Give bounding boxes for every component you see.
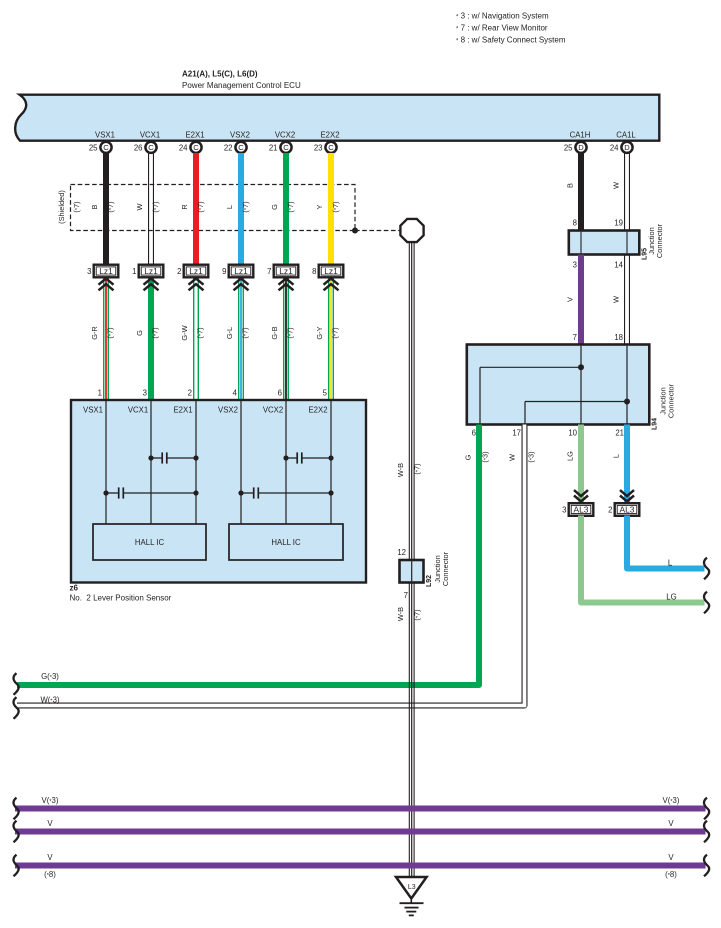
svg-text:1: 1 [132, 267, 136, 276]
svg-text:AL3: AL3 [574, 505, 589, 515]
svg-text:VSX1: VSX1 [95, 131, 115, 140]
svg-text:3: 3 [562, 505, 566, 514]
junction connector L95 [569, 223, 664, 260]
L95 pin 8 [573, 219, 577, 228]
svg-text:AL3: AL3 [620, 505, 635, 515]
svg-text:12: 12 [397, 548, 406, 557]
svg-text:C: C [103, 143, 109, 152]
wire LG from L94 pin 10 to AL3 [566, 425, 582, 505]
svg-text:7: 7 [573, 333, 577, 342]
svg-text:G: G [270, 204, 279, 210]
svg-text:6: 6 [278, 389, 282, 398]
svg-text:Connector: Connector [441, 551, 450, 586]
svg-text:21: 21 [615, 429, 624, 438]
svg-text:26: 26 [134, 144, 143, 153]
svg-text:CA1H: CA1H [570, 131, 591, 140]
L94 pin 10 [568, 429, 577, 438]
svg-text:Lz1: Lz1 [144, 266, 158, 276]
L95 pin 3 [573, 261, 577, 270]
svg-text:(*7): (*7) [331, 201, 340, 212]
svg-text:(*3): (*3) [481, 451, 490, 462]
svg-text:HALL IC: HALL IC [135, 538, 165, 547]
sensor z6 pin 2 [188, 389, 192, 398]
svg-text:G-R: G-R [90, 326, 99, 340]
svg-text:E2X1: E2X1 [185, 131, 204, 140]
svg-text:G: G [464, 454, 473, 460]
wire V (*8) horizontal [15, 853, 706, 879]
wire L from L94 pin 21 to AL3 [611, 425, 627, 505]
wire L from ECU to Lz1 [225, 153, 250, 266]
svg-text:14: 14 [614, 261, 623, 270]
wire W from ECU to Lz1 [135, 153, 160, 266]
svg-text:24: 24 [179, 144, 188, 153]
svg-text:V: V [47, 853, 53, 862]
svg-text:W: W [612, 296, 621, 303]
svg-text:A21(A), L5(C), L6(D): A21(A), L5(C), L6(D) [182, 70, 258, 79]
svg-text:VCX1: VCX1 [140, 131, 160, 140]
wire G-Y from Lz1 to sensor [315, 278, 340, 400]
svg-text:C: C [148, 143, 154, 152]
capacitor C1 (VCX1-E2X1) [148, 452, 198, 463]
L94 pin 17 [512, 429, 521, 438]
svg-text:C: C [193, 143, 199, 152]
L94 pin 18 [614, 333, 623, 342]
svg-text:W: W [508, 454, 517, 461]
svg-text:(*7): (*7) [106, 327, 115, 338]
svg-text:(*7): (*7) [72, 201, 81, 212]
svg-text:VCX2: VCX2 [263, 406, 283, 415]
break squiggle V left [13, 821, 18, 843]
svg-text:VCX1: VCX1 [128, 406, 148, 415]
svg-text:V: V [566, 297, 575, 302]
svg-text:W-B: W-B [396, 607, 405, 621]
svg-text:D: D [578, 143, 584, 152]
sensor z6 No.2 Lever Position Sensor box [70, 400, 367, 603]
wire G (*3) from L94 pin 6 to left edge [17, 425, 490, 686]
wire G-L from Lz1 to sensor [225, 278, 250, 400]
connector Lz1 pin 7 [267, 265, 298, 291]
svg-text:(*7): (*7) [196, 201, 205, 212]
svg-text:L: L [668, 559, 673, 568]
svg-text:L: L [611, 454, 620, 458]
svg-text:(*7): (*7) [413, 463, 422, 474]
svg-text:Lz1: Lz1 [99, 266, 113, 276]
svg-text:9: 9 [222, 267, 226, 276]
svg-text:* 3 : w/ Navigation System: * 3 : w/ Navigation System [456, 12, 549, 21]
svg-text:19: 19 [614, 219, 623, 228]
svg-text:Y: Y [315, 204, 324, 209]
break squiggle G left [13, 673, 18, 695]
svg-text:G-W: G-W [180, 325, 189, 340]
ECU pin 26 VCX1 [134, 131, 160, 153]
svg-text:(*7): (*7) [241, 327, 250, 338]
svg-text:Connector: Connector [655, 223, 664, 258]
svg-text:E2X2: E2X2 [320, 131, 339, 140]
svg-text:Connector: Connector [667, 383, 676, 418]
connector Lz1 pin 9 [222, 265, 253, 291]
sensor z6 pin 1 [98, 389, 102, 398]
svg-text:V: V [668, 819, 674, 828]
svg-text:24: 24 [610, 144, 619, 153]
ECU pin 21 VCX2 [269, 131, 295, 153]
svg-text:V: V [47, 819, 53, 828]
svg-text:7: 7 [267, 267, 271, 276]
ECU pin 24 CA1L [610, 131, 637, 153]
svg-text:3: 3 [87, 267, 91, 276]
svg-text:10: 10 [568, 429, 577, 438]
break squiggle LG right [704, 592, 709, 614]
wire B from ECU to Lz1 [90, 153, 115, 266]
ECU A21 Power Management Control ECU [15, 70, 659, 141]
L92 pin 7 [404, 591, 408, 600]
wire G-B from Lz1 to sensor [270, 278, 295, 400]
svg-text:Lz1: Lz1 [234, 266, 248, 276]
wire W (*3) from L94 pin 17 to left edge [17, 425, 536, 706]
svg-text:(*7): (*7) [241, 201, 250, 212]
svg-text:G-L: G-L [225, 327, 234, 339]
wire W CA1L to L95 [612, 153, 630, 231]
svg-text:W-B: W-B [396, 463, 405, 477]
note *7 w/ Rear View Monitor [456, 24, 548, 33]
wire W-B shield drain vertical [396, 242, 422, 878]
svg-text:B: B [90, 204, 99, 209]
ECU pin 24 E2X1 [179, 131, 205, 153]
ECU pin 22 VSX2 [224, 131, 250, 153]
svg-text:3: 3 [573, 261, 577, 270]
HALL IC left [93, 524, 206, 560]
svg-text:* 7 : w/ Rear View Monitor: * 7 : w/ Rear View Monitor [456, 24, 548, 33]
sensor z6 pin 4 [233, 389, 238, 398]
svg-text:G-Y: G-Y [315, 326, 324, 339]
svg-text:(*7): (*7) [151, 201, 160, 212]
svg-text:R: R [180, 204, 189, 209]
octagon shield terminal [400, 219, 423, 242]
wire LG from AL3 to right edge [581, 516, 705, 603]
L94 pin 21 [615, 429, 624, 438]
wire W L95 to L94 [612, 255, 630, 346]
break squiggle V (*8) left [13, 855, 18, 877]
capacitor C4 (VSX2-E2X2) [238, 487, 333, 498]
L95 pin 14 [614, 261, 623, 270]
wire G-R from Lz1 to sensor [90, 278, 115, 400]
wire B CA1H to L95 [566, 153, 581, 231]
L94 pin 6 [472, 429, 476, 438]
svg-text:* 8 : w/ Safety Connect System: * 8 : w/ Safety Connect System [456, 36, 566, 45]
svg-text:VSX2: VSX2 [218, 406, 238, 415]
svg-text:W(*3): W(*3) [40, 696, 59, 705]
svg-text:17: 17 [512, 429, 521, 438]
svg-text:G: G [135, 330, 144, 336]
connector AL3 pin 2 [608, 490, 639, 516]
svg-text:1: 1 [98, 389, 102, 398]
svg-text:(*8): (*8) [44, 870, 56, 879]
wire G-W from Lz1 to sensor [180, 278, 205, 400]
svg-text:(*7): (*7) [331, 327, 340, 338]
connector Lz1 pin 2 [177, 265, 208, 291]
svg-text:W: W [135, 203, 144, 210]
svg-text:VSX1: VSX1 [83, 406, 103, 415]
svg-text:C: C [238, 143, 244, 152]
svg-text:(*7): (*7) [286, 201, 295, 212]
wire G from ECU to Lz1 [270, 153, 295, 266]
svg-text:(*7): (*7) [286, 327, 295, 338]
svg-text:21: 21 [269, 144, 278, 153]
svg-text:5: 5 [323, 389, 328, 398]
svg-text:VSX2: VSX2 [230, 131, 250, 140]
wire G from Lz1 to sensor [135, 278, 160, 400]
break squiggle W left [13, 697, 18, 719]
connector Lz1 pin 3 [87, 265, 118, 291]
svg-text:L: L [225, 205, 234, 209]
svg-text:4: 4 [233, 389, 238, 398]
svg-text:L3: L3 [408, 884, 416, 891]
wire L from AL3 to right edge [627, 516, 705, 569]
svg-text:2: 2 [608, 505, 612, 514]
svg-text:8: 8 [573, 219, 577, 228]
shield drain dashed wire to octagon [352, 228, 400, 234]
ECU pin 23 E2X2 [314, 131, 340, 153]
break squiggle L right [704, 558, 709, 580]
svg-text:D: D [624, 143, 630, 152]
wire V L95 to L94 [566, 255, 581, 346]
wire V (*3) horizontal [15, 796, 706, 809]
capacitor C3 (VCX2-E2X2) [283, 452, 333, 463]
wire R from ECU to Lz1 [180, 153, 205, 266]
ECU pin 25 CA1H [564, 131, 591, 153]
ECU pin 25 VSX1 [89, 131, 115, 153]
svg-text:7: 7 [404, 591, 408, 600]
svg-text:Lz1: Lz1 [279, 266, 293, 276]
svg-text:Lz1: Lz1 [189, 266, 203, 276]
svg-text:CA1L: CA1L [616, 131, 636, 140]
svg-text:(*7): (*7) [413, 609, 422, 620]
svg-text:(*7): (*7) [196, 327, 205, 338]
svg-text:2: 2 [188, 389, 192, 398]
svg-text:L92: L92 [426, 575, 433, 587]
connector Lz1 pin 8 [312, 265, 343, 291]
connector AL3 pin 3 [562, 490, 593, 516]
L94 pin 7 [573, 333, 577, 342]
svg-text:No. 2 Lever Position Sensor: No. 2 Lever Position Sensor [70, 594, 172, 603]
svg-text:HALL IC: HALL IC [271, 538, 301, 547]
wire Y from ECU to Lz1 [315, 153, 340, 266]
svg-text:Power Management Control ECU: Power Management Control ECU [182, 81, 301, 90]
svg-text:(*7): (*7) [106, 201, 115, 212]
svg-text:6: 6 [472, 429, 476, 438]
svg-text:25: 25 [564, 144, 573, 153]
svg-text:V: V [668, 853, 674, 862]
connector Lz1 pin 1 [132, 265, 163, 291]
svg-text:W: W [612, 182, 621, 189]
svg-text:(Shielded): (Shielded) [57, 190, 66, 224]
break squiggle V (*3) right [704, 798, 709, 820]
sensor internal wires [106, 400, 331, 524]
junction connector L92 [400, 551, 451, 587]
svg-text:22: 22 [224, 144, 233, 153]
wire V horizontal [15, 819, 706, 832]
svg-text:LG: LG [566, 451, 575, 461]
svg-text:VCX2: VCX2 [275, 131, 295, 140]
svg-text:25: 25 [89, 144, 98, 153]
svg-text:3: 3 [143, 389, 147, 398]
ground L3 [396, 877, 427, 915]
sensor z6 pin 6 [278, 389, 282, 398]
HALL IC right [229, 524, 343, 560]
svg-text:C: C [283, 143, 289, 152]
svg-text:(*8): (*8) [665, 870, 677, 879]
svg-text:E2X1: E2X1 [173, 406, 192, 415]
svg-text:(*7): (*7) [151, 327, 160, 338]
break squiggle V (*8) right [704, 855, 709, 877]
svg-text:2: 2 [177, 267, 181, 276]
note *3 w/ Navigation System [456, 12, 549, 21]
sensor z6 pin 5 [323, 389, 328, 398]
sensor z6 pin 3 [143, 389, 147, 398]
shield (Shielded) dashed box [57, 185, 355, 231]
svg-text:LG: LG [666, 593, 676, 602]
svg-text:23: 23 [314, 144, 323, 153]
L92 pin 12 [397, 548, 406, 557]
svg-text:E2X2: E2X2 [308, 406, 327, 415]
capacitor C2 (VSX1-E2X1) [103, 487, 198, 498]
svg-text:L94: L94 [652, 418, 659, 430]
svg-text:Lz1: Lz1 [324, 266, 338, 276]
svg-text:(*3): (*3) [527, 451, 536, 462]
svg-text:8: 8 [312, 267, 316, 276]
junction connector L94 [467, 345, 676, 431]
svg-text:z6: z6 [70, 584, 79, 593]
note *8 w/ Safety Connect System [456, 36, 566, 45]
break squiggle V right [704, 821, 709, 843]
svg-text:18: 18 [614, 333, 623, 342]
svg-text:C: C [328, 143, 334, 152]
svg-text:G-B: G-B [270, 326, 279, 339]
L95 pin 19 [614, 219, 623, 228]
break squiggle V (*3) left [13, 798, 18, 820]
svg-text:B: B [566, 183, 575, 188]
